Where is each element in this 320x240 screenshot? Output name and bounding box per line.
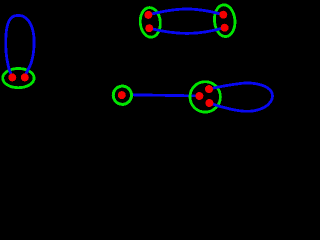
cluster V4 (small bottom circle) xyxy=(113,86,131,104)
edge e5 self-loop on V5 xyxy=(209,83,272,111)
edge e3 (bottom arc V2-V3) xyxy=(149,28,224,34)
vertex v2 in V1 xyxy=(21,73,29,81)
vertex v10 in V5 (bottom) xyxy=(205,99,213,107)
cluster V1 (left ellipse) xyxy=(3,69,34,88)
cluster V2 (top middle ellipse) xyxy=(139,7,162,38)
cluster V3 (top right ellipse) xyxy=(213,4,236,37)
vertex v1 in V1 xyxy=(8,73,16,81)
vertex v3 in V2 (top) xyxy=(144,11,152,19)
vertex v9 in V5 (left) xyxy=(195,92,203,100)
vertex v4 in V2 (bottom) xyxy=(145,24,153,32)
vertex v8 in V5 (top) xyxy=(205,85,213,93)
vertex v5 in V3 (top) xyxy=(219,11,227,19)
edge e4 (V4-V5 straight link, drawn under the cluster rings) xyxy=(131,95,200,96)
vertex v6 in V3 (bottom) xyxy=(221,24,229,32)
edge e1 self-loop on V1 xyxy=(6,16,34,77)
vertex v7 in V4 xyxy=(118,91,126,99)
edge e2 (top arc V2-V3) xyxy=(148,9,223,15)
cluster V5 (big bottom circle) xyxy=(190,82,220,112)
